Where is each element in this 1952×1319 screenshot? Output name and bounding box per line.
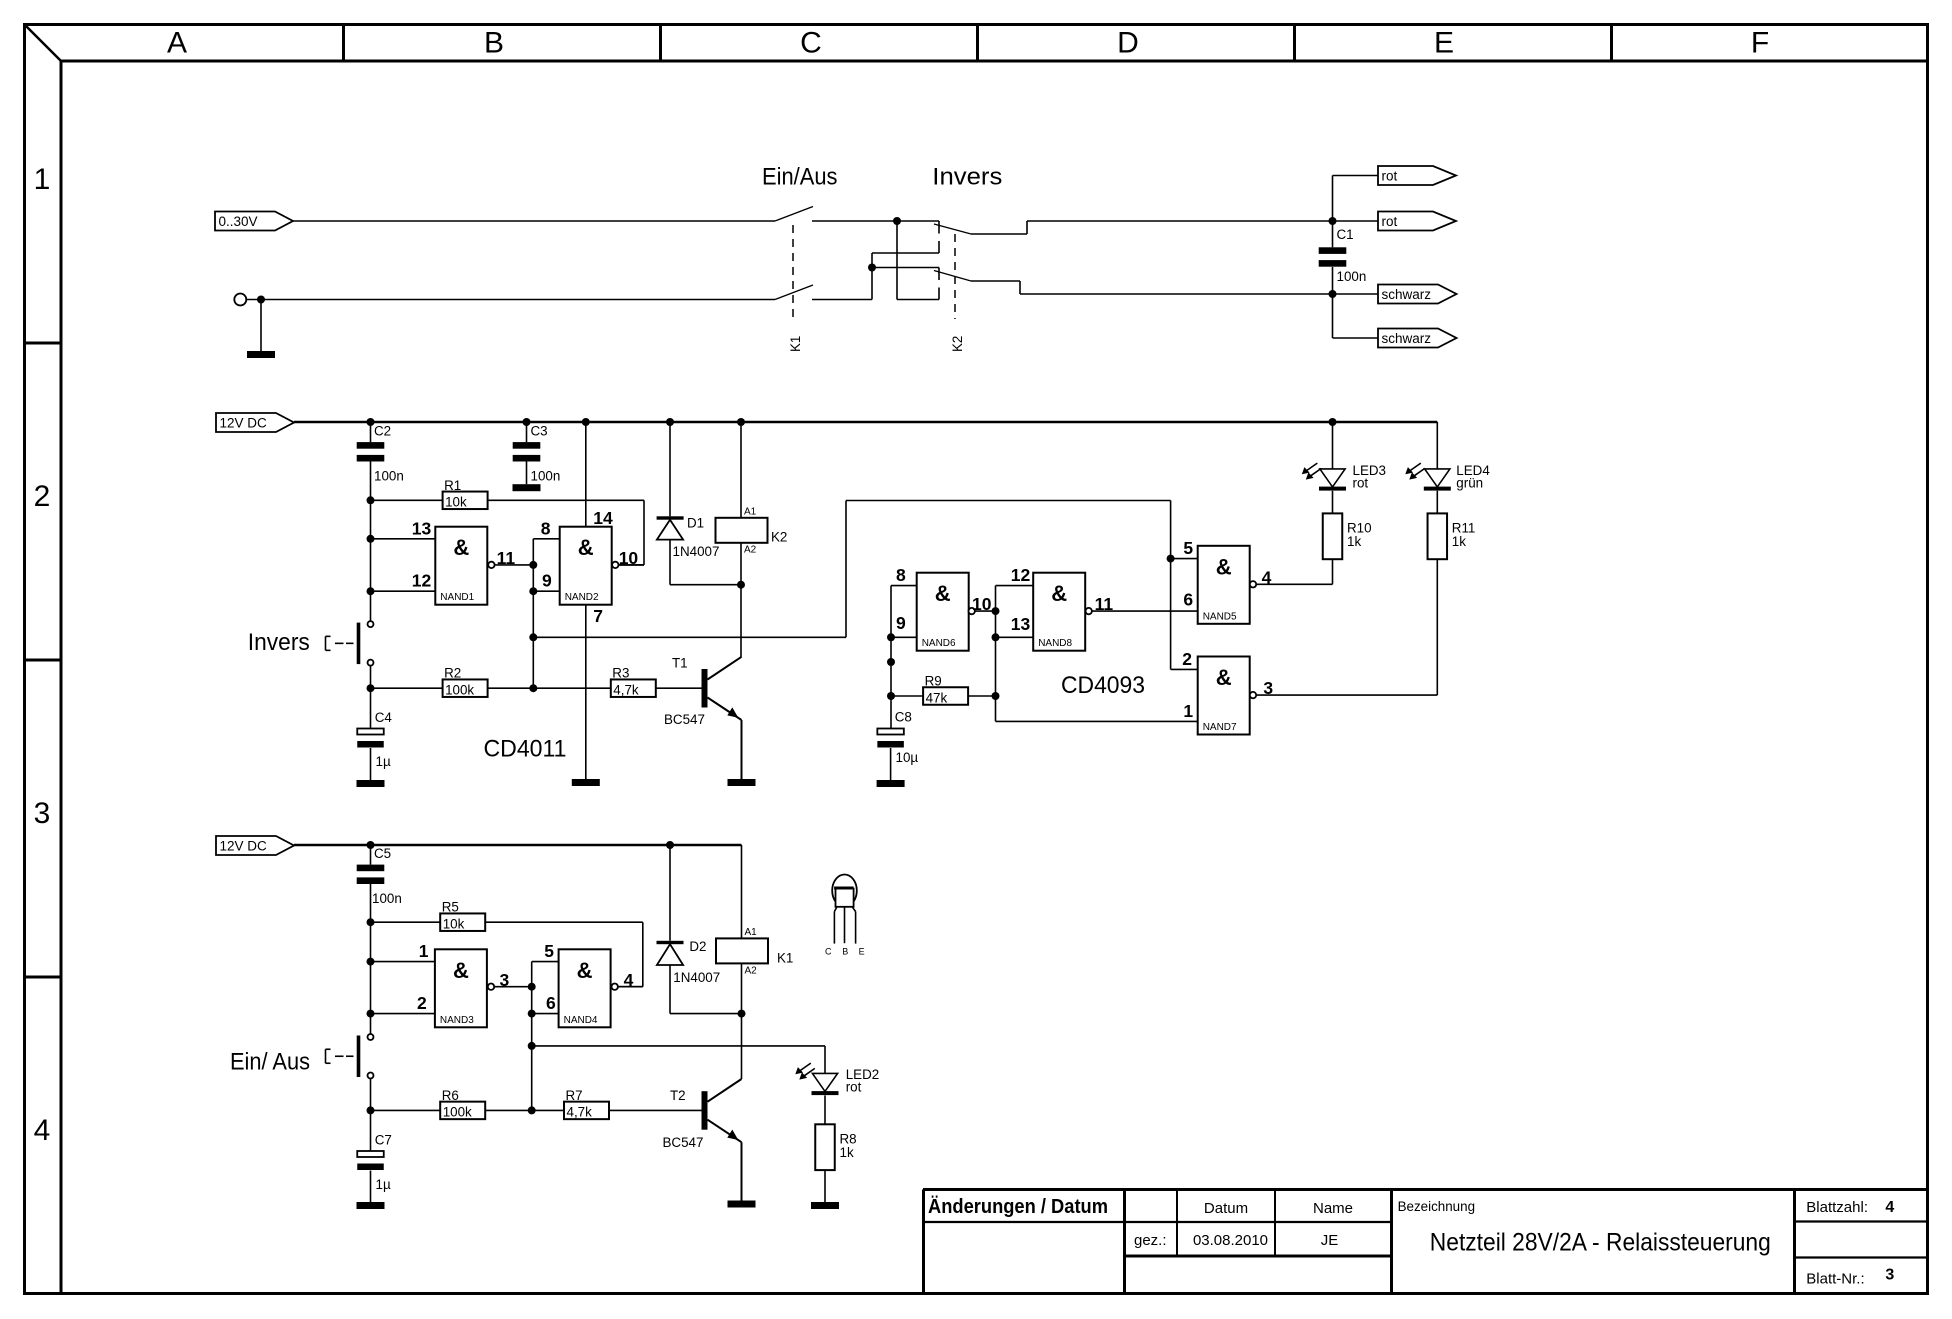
svg-text:100k: 100k <box>445 683 474 698</box>
junction dot at ground branch <box>257 296 265 304</box>
svg-text:K1: K1 <box>788 336 803 352</box>
wire NAND8 input bus <box>995 586 997 722</box>
svg-text:K1: K1 <box>777 951 793 966</box>
wire pin 2 NAND7 <box>1171 668 1198 670</box>
resistor R5 10k <box>371 900 486 932</box>
wire pin 2 <box>371 1013 435 1015</box>
wire NAND4 input bus <box>531 962 533 1111</box>
transistor package TO-92 drawing <box>825 875 865 957</box>
wire bottom rail to Ein/Aus switch <box>246 299 775 301</box>
pin 14 wire to rail <box>585 422 587 527</box>
terminal circle bottom input <box>234 294 246 306</box>
label CD4011 <box>484 736 567 763</box>
pushbutton Invers <box>326 591 374 688</box>
wire to rot connector 2 <box>1333 220 1379 222</box>
resistor R8 1k <box>815 1124 856 1202</box>
svg-text:BC547: BC547 <box>664 712 705 727</box>
svg-text:Blattzahl:: Blattzahl: <box>1806 1199 1868 1216</box>
wire R1 to NAND2 output feedback <box>488 500 644 565</box>
svg-text:NAND2: NAND2 <box>565 592 599 603</box>
nand gate NAND1 (CD4011) <box>435 527 487 605</box>
wire NAND5 out to R10 <box>1256 583 1332 585</box>
node 12V DC connector (Ein/Aus section) <box>216 836 294 855</box>
svg-text:&: & <box>1216 554 1232 579</box>
label CD4093 <box>1061 672 1145 699</box>
wire K2 top output to C1 top node <box>971 221 1333 234</box>
wire NAND6 out to NAND8 inputs <box>975 610 996 612</box>
pin number 13 NAND8 <box>1011 614 1031 634</box>
node A junction dot <box>893 217 901 225</box>
svg-text:NAND6: NAND6 <box>922 638 956 649</box>
switch K2 contact b (Invers bottom pole) <box>934 271 971 282</box>
pin number 12 NAND8 <box>1011 565 1031 585</box>
output bubble NAND7 <box>1250 692 1256 698</box>
wire pin 9 NAND6 <box>891 636 917 638</box>
pin number 6 NAND5 <box>1183 590 1193 610</box>
svg-text:100n: 100n <box>1337 269 1367 284</box>
svg-text:C: C <box>825 947 832 957</box>
svg-text:3: 3 <box>34 797 51 830</box>
svg-text:rot: rot <box>1382 214 1398 229</box>
svg-text:2: 2 <box>417 993 427 1013</box>
svg-text:Invers: Invers <box>248 629 310 656</box>
svg-text:6: 6 <box>1183 590 1193 610</box>
capacitor C5 <box>357 845 402 922</box>
wire NAND3 input bus <box>370 922 372 1013</box>
label K2 <box>950 336 965 352</box>
junction dot K2 coil / T1 collector <box>737 581 745 589</box>
junction dot NAND4 in <box>528 983 536 991</box>
ground at input terminal <box>247 300 275 359</box>
svg-text:&: & <box>577 958 593 983</box>
junction dot NAND5 pin 5 <box>1167 555 1175 563</box>
pushbutton Ein/Aus <box>326 1014 374 1111</box>
svg-text:2: 2 <box>1182 649 1192 669</box>
svg-text:2: 2 <box>34 480 51 513</box>
capacitor C8 <box>877 709 918 780</box>
svg-text:9: 9 <box>542 571 552 591</box>
pin number 10 NAND6 <box>972 594 992 614</box>
junction dot takeoff to CD4093 <box>529 633 537 641</box>
wire node B riser <box>871 253 873 300</box>
svg-text:D2: D2 <box>689 939 706 954</box>
wire pin 9 <box>533 590 559 592</box>
svg-text:C8: C8 <box>895 709 912 724</box>
junction dot R2 tap <box>367 684 375 692</box>
wire R2 to R3 <box>488 687 611 689</box>
svg-text:D: D <box>1117 27 1139 60</box>
junction dot NAND2 pin9 <box>529 587 537 595</box>
svg-text:T2: T2 <box>670 1088 686 1103</box>
svg-text:1k: 1k <box>840 1145 854 1160</box>
svg-text:B: B <box>842 947 848 957</box>
svg-text:4,7k: 4,7k <box>567 1105 593 1120</box>
wire D1 to K2 coil bottom <box>670 584 741 586</box>
svg-text:NAND1: NAND1 <box>440 592 474 603</box>
wire NAND1 out to NAND2 inputs <box>495 564 534 566</box>
svg-text:1k: 1k <box>1347 534 1361 549</box>
junction dot C1 top <box>1329 217 1337 225</box>
capacitor C4 <box>357 688 392 780</box>
svg-text:100n: 100n <box>531 469 561 484</box>
wire R5 to NAND4 output feedback <box>485 922 643 987</box>
wire NAND3 out to NAND4 inputs <box>494 986 532 988</box>
wire to NAND7 pin 1 <box>996 720 1198 722</box>
svg-text:&: & <box>453 535 469 560</box>
wire to schwarz connector 2 <box>1333 294 1379 338</box>
svg-text:5: 5 <box>1183 538 1193 558</box>
svg-text:C2: C2 <box>374 424 391 439</box>
svg-text:rot: rot <box>1353 476 1369 491</box>
label K1 <box>788 336 803 352</box>
svg-text:Änderungen / Datum: Änderungen / Datum <box>928 1195 1108 1218</box>
svg-text:E: E <box>1434 27 1454 60</box>
svg-text:&: & <box>935 581 951 606</box>
svg-text:JE: JE <box>1321 1232 1339 1249</box>
svg-text:R7: R7 <box>566 1088 583 1103</box>
svg-text:R6: R6 <box>442 1088 459 1103</box>
ground under R8 <box>811 1202 839 1209</box>
svg-text:1N4007: 1N4007 <box>673 970 720 985</box>
wire pin 1 <box>371 961 435 963</box>
wire top contact drop of K2 <box>872 221 939 253</box>
svg-text:R5: R5 <box>442 900 459 915</box>
junction dot K1 coil bottom <box>738 1010 746 1018</box>
svg-text:K2: K2 <box>771 530 787 545</box>
output bubble NAND5 <box>1250 581 1256 587</box>
label Invers <box>932 163 1002 190</box>
pin number 8 NAND6 <box>896 565 906 585</box>
svg-text:0..30V: 0..30V <box>219 214 258 229</box>
output bubble NAND2 <box>612 562 618 568</box>
svg-text:1k: 1k <box>1452 534 1466 549</box>
wire K2 bottom output to C1 bottom node <box>971 281 1333 294</box>
wire NAND7 out to R11 <box>1256 559 1437 695</box>
ground under C4 <box>357 780 385 787</box>
nand gate NAND5 (CD4093) <box>1198 546 1250 624</box>
svg-text:D1: D1 <box>687 516 704 531</box>
svg-text:Netzteil 28V/2A - Relaissteuer: Netzteil 28V/2A - Relaissteuerung <box>1430 1229 1771 1257</box>
svg-text:Datum: Datum <box>1204 1200 1248 1217</box>
svg-text:gez.:: gez.: <box>1134 1232 1167 1249</box>
svg-text:A2: A2 <box>744 545 757 556</box>
transistor T2 BC547 <box>663 1079 756 1208</box>
nand gate NAND8 (CD4093) <box>1033 573 1085 651</box>
pin number 2 NAND3 <box>417 993 427 1013</box>
svg-text:Invers: Invers <box>932 163 1002 190</box>
pin 7 wire to ground <box>585 605 587 779</box>
capacitor C3 <box>513 422 561 484</box>
wire to T2 collector <box>741 1014 743 1079</box>
node 0..30V input connector <box>215 212 293 231</box>
svg-text:NAND7: NAND7 <box>1203 722 1237 733</box>
pin number 10 <box>619 548 639 568</box>
wire pin 13 NAND8 <box>996 636 1034 638</box>
diode D1 1N4007 <box>657 422 720 585</box>
wire node B to K2 bottom contact <box>872 267 939 269</box>
svg-text:B: B <box>484 27 504 60</box>
wire latch output to CD4093 oscillator <box>533 501 1170 670</box>
resistor R7 4,7k <box>564 1088 609 1120</box>
svg-text:NAND3: NAND3 <box>440 1015 474 1026</box>
svg-text:&: & <box>1051 581 1067 606</box>
pin number 9 <box>542 571 552 591</box>
svg-text:NAND5: NAND5 <box>1203 611 1237 622</box>
pin number 3 NAND7 <box>1263 678 1273 698</box>
svg-text:10k: 10k <box>443 917 465 932</box>
pin number 5 NAND4 <box>544 941 554 961</box>
resistor R11 1k <box>1428 513 1476 559</box>
junction dot takeoff to LED2 <box>528 1042 536 1050</box>
svg-text:R9: R9 <box>925 674 942 689</box>
ground under C3 <box>513 484 541 491</box>
svg-text:Ein/Aus: Ein/Aus <box>762 163 838 190</box>
wire pin 12 NAND8 <box>996 585 1034 587</box>
svg-text:8: 8 <box>541 518 551 538</box>
svg-text:Name: Name <box>1313 1200 1353 1217</box>
switch K2 contact a (Invers top pole) <box>934 224 971 234</box>
junction dot R5 tap <box>367 918 375 926</box>
svg-text:8: 8 <box>896 565 906 585</box>
pin number 11 NAND8 <box>1095 594 1114 614</box>
svg-text:NAND4: NAND4 <box>564 1015 598 1026</box>
svg-text:schwarz: schwarz <box>1382 331 1432 346</box>
switch K1 contact b (Ein/Aus bottom pole) <box>775 285 872 300</box>
svg-text:100n: 100n <box>374 469 404 484</box>
svg-text:13: 13 <box>412 518 432 538</box>
svg-text:1: 1 <box>34 163 51 196</box>
wire NAND8 out to NAND5 pin 6 <box>1092 610 1198 612</box>
actuator dashed link K2 <box>954 234 956 319</box>
wire top rail from 0..30V to Ein/Aus switch <box>293 220 775 222</box>
output bubble NAND4 <box>612 984 618 990</box>
svg-text:Blatt-Nr.:: Blatt-Nr.: <box>1806 1271 1864 1288</box>
wire R6 to R7 <box>485 1109 564 1111</box>
svg-text:4,7k: 4,7k <box>613 683 639 698</box>
svg-text:13: 13 <box>1011 614 1031 634</box>
junction dot R6 tap <box>367 1106 375 1114</box>
junction dot pin 13 NAND8 <box>992 633 1000 641</box>
wire pin 5 NAND4 <box>532 961 559 963</box>
svg-text:NAND8: NAND8 <box>1038 638 1072 649</box>
pin number 1 NAND7 <box>1183 701 1193 721</box>
svg-text:A: A <box>167 27 187 60</box>
wire pin 13 <box>371 538 436 540</box>
junction dot R6/R7 node <box>528 1106 536 1114</box>
svg-text:12V DC: 12V DC <box>220 839 268 854</box>
svg-text:A2: A2 <box>745 966 758 977</box>
nand gate NAND7 (CD4093) <box>1198 657 1250 735</box>
relay coil K2 <box>716 422 788 585</box>
svg-text:Bezeichnung: Bezeichnung <box>1398 1199 1475 1214</box>
svg-text:E: E <box>859 947 865 957</box>
label Ein/Aus <box>762 163 838 190</box>
junction dot NAND3 pin1 <box>367 958 375 966</box>
pin number 5 NAND5 <box>1183 538 1193 558</box>
junction dot R2/R3 node <box>529 684 537 692</box>
svg-text:9: 9 <box>896 613 906 633</box>
wire NAND4 out stub <box>618 986 643 988</box>
svg-text:R1: R1 <box>444 478 461 493</box>
wire pin 12 <box>371 590 436 592</box>
svg-text:A1: A1 <box>744 507 757 518</box>
ground under pin 7 <box>572 779 600 786</box>
junction dot NAND1 pin13 <box>367 535 375 543</box>
svg-text:10k: 10k <box>445 495 467 510</box>
svg-text:1µ: 1µ <box>376 1177 391 1192</box>
svg-text:K2: K2 <box>950 336 965 352</box>
svg-text:3: 3 <box>1885 1267 1894 1284</box>
wire NAND2 input bus <box>532 539 534 638</box>
svg-text:100n: 100n <box>372 891 402 906</box>
pin number 4 NAND4 <box>624 970 634 990</box>
svg-text:12V DC: 12V DC <box>220 416 268 431</box>
svg-text:rot: rot <box>846 1080 862 1095</box>
pin number 9 NAND6 <box>896 613 906 633</box>
svg-text:5: 5 <box>544 941 554 961</box>
wire 12V rail row3 <box>294 844 742 847</box>
wire crossover vertical from node A <box>896 221 898 300</box>
node schwarz connector 2 <box>1378 329 1457 348</box>
svg-text:1: 1 <box>1183 701 1193 721</box>
svg-text:4: 4 <box>34 1114 51 1147</box>
wire NAND2 out stub <box>619 564 645 566</box>
wire to T1 collector <box>740 585 742 657</box>
junction dots on 12V rail <box>367 418 1337 426</box>
svg-text:C7: C7 <box>375 1132 392 1147</box>
node schwarz connector 1 <box>1378 285 1457 304</box>
junction dot NAND4 pin6 <box>528 1010 536 1018</box>
wire 12V rail row2 <box>294 421 1437 424</box>
svg-text:6: 6 <box>546 993 556 1013</box>
pin number 1 NAND3 <box>419 941 429 961</box>
svg-text:47k: 47k <box>926 690 948 705</box>
ground under C7 <box>357 1202 385 1209</box>
svg-text:12: 12 <box>1011 565 1031 585</box>
svg-text:A1: A1 <box>745 927 758 938</box>
svg-text:1N4007: 1N4007 <box>673 544 720 559</box>
junction dot R1 tap <box>367 496 375 504</box>
svg-text:1µ: 1µ <box>376 754 391 769</box>
pin number 7 <box>593 606 603 626</box>
led LED3 rot <box>1302 422 1386 513</box>
svg-text:CD4011: CD4011 <box>484 736 567 763</box>
pin number 3 NAND3 <box>500 970 510 990</box>
wire to rot connector 1 <box>1333 176 1379 222</box>
svg-text:CD4093: CD4093 <box>1061 672 1145 699</box>
label Ein/Aus (row4) <box>230 1049 310 1076</box>
capacitor C7 <box>357 1110 392 1202</box>
pin number 2 NAND7 <box>1182 649 1192 669</box>
svg-text:10µ: 10µ <box>896 750 919 765</box>
svg-text:&: & <box>1216 665 1232 690</box>
junction dot C1 bottom <box>1329 290 1337 298</box>
relay coil K1 <box>716 845 793 1014</box>
resistor R2 100k <box>371 666 488 698</box>
output bubble NAND8 <box>1086 608 1092 614</box>
svg-text:4: 4 <box>1885 1199 1894 1216</box>
pin number 14 <box>593 508 613 528</box>
wire D2 to K1 coil bottom <box>670 1013 742 1015</box>
node rot connector 2 <box>1378 212 1456 231</box>
nand gate NAND4 (CD4011) <box>559 949 611 1027</box>
svg-text:C4: C4 <box>375 710 393 725</box>
svg-text:03.08.2010: 03.08.2010 <box>1193 1232 1268 1249</box>
junction dot NAND3 pin2 <box>367 1010 375 1018</box>
led LED2 rot <box>795 1046 879 1124</box>
pin number 12 <box>412 571 432 591</box>
svg-text:C3: C3 <box>531 424 548 439</box>
wire to schwarz connector 1 <box>1333 293 1379 295</box>
svg-text:12: 12 <box>412 571 432 591</box>
wire NAND1 input bus <box>370 500 372 591</box>
junction dot R9 right <box>992 692 1000 700</box>
wire R7 to T2 base <box>609 1109 702 1111</box>
svg-text:14: 14 <box>593 508 613 528</box>
wire R3 to T1 base <box>656 687 702 689</box>
junction dot pin 9 NAND6 <box>887 633 895 641</box>
pin number 4 NAND5 <box>1262 567 1272 587</box>
svg-text:R2: R2 <box>444 666 461 681</box>
svg-text:&: & <box>453 958 469 983</box>
svg-text:schwarz: schwarz <box>1382 287 1432 302</box>
junction dot NAND2 in <box>529 561 537 569</box>
resistor R3 4,7k <box>611 666 656 698</box>
node B junction dot <box>868 264 876 272</box>
actuator dashed link K1 <box>792 225 794 319</box>
svg-text:100k: 100k <box>443 1105 472 1120</box>
capacitor C2 <box>357 422 404 500</box>
output bubble NAND1 <box>488 562 494 568</box>
nand gate NAND2 (CD4011) <box>560 527 612 605</box>
svg-text:C: C <box>800 27 822 60</box>
pin number 8 <box>541 518 551 538</box>
output bubble NAND3 <box>488 984 494 990</box>
junction dot NAND1 pin12 <box>367 587 375 595</box>
nand gate NAND6 (CD4093) <box>917 573 969 651</box>
svg-text:C1: C1 <box>1337 227 1354 242</box>
svg-text:T1: T1 <box>672 656 688 671</box>
wire latch output to K1/LED2 <box>532 1045 825 1047</box>
resistor R10 1k <box>1323 513 1372 584</box>
node 12V DC connector (Invers section) <box>216 413 294 432</box>
svg-text:&: & <box>578 535 594 560</box>
svg-text:BC547: BC547 <box>663 1135 704 1150</box>
resistor R6 100k <box>371 1088 486 1120</box>
transistor T1 BC547 <box>664 656 756 787</box>
pin number 11 <box>497 548 516 568</box>
junction dot mid bus <box>887 658 895 666</box>
node rot connector 1 <box>1378 166 1456 185</box>
svg-text:7: 7 <box>593 606 603 626</box>
output bubble NAND6 <box>969 608 975 614</box>
junction dot R9 left <box>887 692 895 700</box>
svg-text:Ein/ Aus: Ein/ Aus <box>230 1049 310 1076</box>
wire crossover lower horizontal from node A <box>897 268 939 300</box>
svg-text:grün: grün <box>1456 476 1483 491</box>
svg-text:1: 1 <box>419 941 429 961</box>
led LED4 gruen <box>1405 422 1490 513</box>
pin number 6 NAND4 <box>546 993 556 1013</box>
resistor R9 47k <box>891 674 996 706</box>
wire pin 8 <box>533 538 559 540</box>
pin number 13 <box>412 518 432 538</box>
nand gate NAND3 (CD4011) <box>435 949 487 1027</box>
capacitor C1 <box>1319 221 1367 294</box>
svg-text:C5: C5 <box>374 846 391 861</box>
diode D2 1N4007 <box>657 845 721 1014</box>
label Invers (row2) <box>248 629 310 656</box>
